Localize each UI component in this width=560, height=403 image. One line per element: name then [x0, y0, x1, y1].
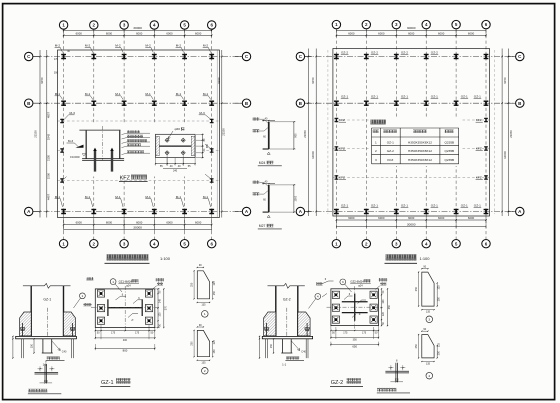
- svg-text:KFZ: KFZ: [476, 118, 482, 122]
- GZ-2 column elevation: break line: [268, 283, 305, 288]
- svg-text:125: 125: [213, 340, 216, 345]
- svg-text:9150: 9150: [311, 77, 315, 84]
- svg-text:2: 2: [375, 149, 377, 153]
- wind column row line: [333, 177, 490, 179]
- axis circle A: [516, 207, 524, 215]
- svg-text:KFZ: KFZ: [339, 118, 345, 122]
- svg-text:300: 300: [54, 72, 59, 75]
- column mark A-6 with M-1 label: [209, 209, 214, 214]
- svg-text:KFZ: KFZ: [476, 147, 482, 151]
- GZ-2 plan right dims: [381, 289, 383, 326]
- svg-text:6000: 6000: [348, 216, 355, 220]
- KFZ base plate: [82, 158, 124, 160]
- grid line axis 4 (right plan): [425, 29, 427, 239]
- axis circle 6: [482, 240, 490, 248]
- M24 anchor bolt detail: [268, 122, 270, 149]
- axis stub lines: [33, 211, 40, 213]
- column mark C3 GZ-2: [394, 54, 399, 59]
- column mark A-1 with M-1 label: [61, 209, 66, 214]
- axis circle C: [25, 52, 33, 60]
- grid line axis 3 (left plan): [123, 29, 125, 239]
- svg-text:30000: 30000: [133, 226, 142, 230]
- axis circle 6: [482, 20, 490, 28]
- axis circle C: [516, 52, 524, 60]
- KFZ anchor bolt right: [111, 151, 113, 172]
- GZ-1 anchor bolt plan: outer plate: [95, 289, 155, 328]
- left dimension chain (right plan): [307, 49, 309, 217]
- svg-text:KFZ: KFZ: [387, 158, 393, 162]
- right-top leader: [379, 278, 387, 281]
- callout circle 3: [340, 279, 346, 285]
- svg-text:M-1: M-1: [115, 195, 121, 199]
- svg-text:125: 125: [437, 285, 440, 290]
- GZ-2 gusset left: [264, 312, 276, 336]
- wind column mark axis1 KFZ: [335, 118, 339, 122]
- M27 anchor bolt detail: [268, 185, 270, 212]
- svg-text:M-3: M-3: [70, 111, 76, 115]
- svg-text:KFZ: KFZ: [339, 176, 345, 180]
- axis circle A: [25, 207, 33, 215]
- bottom dimension chain (right plan): [336, 219, 486, 221]
- svg-text:135: 135: [426, 311, 431, 314]
- svg-text:M-1: M-1: [145, 92, 151, 96]
- GZ-2 gusset right: [298, 312, 310, 336]
- column mark B-4 with M-1 label: [152, 101, 157, 106]
- grid line axis 4 (left plan): [153, 29, 155, 239]
- svg-text:9150: 9150: [40, 77, 44, 84]
- svg-text:175: 175: [362, 331, 367, 334]
- right dimension chain (right plan): [501, 49, 503, 217]
- svg-text:M-3: M-3: [199, 111, 205, 115]
- svg-text:M-2: M-2: [176, 44, 182, 48]
- axis circle 5: [452, 240, 460, 248]
- svg-text:M-1: M-1: [176, 195, 182, 199]
- svg-text:12000: 12000: [311, 151, 315, 159]
- GZ-2 column web centerline: [286, 308, 288, 337]
- axis circle 1: [59, 21, 67, 29]
- svg-text:250: 250: [415, 344, 418, 349]
- wind column mark axis6 KFZ: [484, 146, 488, 150]
- axis circle B: [25, 99, 33, 107]
- axis circle 5: [452, 20, 460, 28]
- GZ-1 grout stub: [42, 339, 44, 353]
- wind column mark axis1 KFZ: [335, 175, 339, 179]
- weld symbols: [116, 296, 127, 300]
- wind column mark axis6 with M-3 label: [210, 119, 214, 123]
- axis circle 6: [208, 21, 216, 29]
- svg-text:GZ1-6M24: GZ1-6M24: [119, 279, 133, 283]
- svg-text:GZ-2: GZ-2: [371, 50, 378, 54]
- intermediate column row line: [58, 120, 220, 122]
- svg-text:135: 135: [201, 303, 206, 306]
- svg-text:150: 150: [213, 349, 216, 354]
- callout circle 1: [110, 279, 116, 285]
- column mark B3 GZ-1: [394, 101, 399, 106]
- svg-text:6000: 6000: [348, 31, 355, 35]
- top dimension chain (left plan): [64, 29, 212, 31]
- svg-text:1-1: 1-1: [282, 362, 286, 366]
- GZ-2 anchor bolts with washers: [264, 328, 268, 330]
- wind column mark axis1 KFZ: [335, 146, 339, 150]
- column mark A2 GZ-1: [364, 209, 369, 214]
- grid line axis C (right plan): [305, 56, 515, 58]
- GZ-1 stub dim 150: [33, 339, 35, 353]
- svg-text:GZ-1: GZ-1: [474, 95, 481, 99]
- column mark A-3 with M-1 label: [122, 209, 127, 214]
- wind column mark axis6 KFZ: [484, 118, 488, 122]
- svg-text:GZ-1: GZ-1: [387, 140, 394, 144]
- svg-text:GZ-1: GZ-1: [43, 298, 51, 302]
- stiffener callout circle 4 near elevation: [315, 294, 321, 300]
- title: anchor bolt plan layout (left): [107, 254, 149, 260]
- svg-text:GZ-2: GZ-2: [387, 149, 394, 153]
- grid line axis B (right plan): [305, 102, 515, 104]
- column mark B2 GZ-1: [364, 101, 369, 106]
- column mark C5 GZ-2: [454, 54, 459, 59]
- white mask under KFZ detail: [64, 125, 205, 177]
- axis circle 3: [392, 240, 400, 248]
- svg-text:1: 1: [204, 312, 206, 316]
- column mark C-5 with M-2 label: [182, 54, 187, 59]
- svg-text:12000: 12000: [503, 151, 507, 159]
- wind column row line: [333, 119, 490, 121]
- svg-text:M-2: M-2: [85, 44, 91, 48]
- column mark C1 GZ-2: [334, 54, 339, 59]
- bolts (4): [165, 138, 169, 142]
- weld symbols inside: [344, 296, 353, 300]
- weld flag: [76, 145, 84, 148]
- svg-text:4: 4: [317, 295, 319, 299]
- svg-text:M-2: M-2: [203, 44, 209, 48]
- bolt boxes: [97, 290, 104, 297]
- intermediate column row line: [58, 150, 220, 152]
- cross detail label: [28, 389, 47, 393]
- wind column mark axis6 with M-3 label: [210, 148, 214, 152]
- svg-text:250: 250: [191, 341, 194, 346]
- GZ-2 base plate: [262, 336, 312, 338]
- axis circle 5: [180, 21, 188, 29]
- svg-text:GZ-2: GZ-2: [341, 50, 348, 54]
- GZ-1 base plate: [16, 336, 77, 338]
- svg-text:6000: 6000: [438, 216, 445, 220]
- svg-text:GZ-2: GZ-2: [431, 50, 438, 54]
- svg-text:GZ-1: GZ-1: [461, 95, 468, 99]
- axis stub lines: [33, 102, 40, 104]
- svg-text:1000: 1000: [295, 195, 298, 201]
- svg-text:6000: 6000: [438, 31, 445, 35]
- svg-text:3150: 3150: [47, 154, 51, 161]
- svg-text:21150: 21150: [34, 130, 38, 138]
- intermediate column row line: [58, 180, 220, 182]
- svg-text:GZ-1: GZ-1: [341, 203, 348, 207]
- GZ-1 gusset left: [20, 312, 32, 336]
- svg-text:H350X350X8X12: H350X350X8X12: [408, 140, 432, 144]
- wind column mark axis6 KFZ: [484, 175, 488, 179]
- svg-text:6000: 6000: [408, 31, 415, 35]
- svg-text:6000: 6000: [106, 221, 113, 225]
- GZ-2 plan bottom dims: [331, 330, 379, 332]
- grid line axis A (left plan): [33, 211, 242, 213]
- svg-text:250: 250: [191, 282, 194, 287]
- svg-text:M-1: M-1: [55, 92, 61, 96]
- svg-text:GZ-1: GZ-1: [101, 380, 114, 386]
- cross detail label: [377, 388, 396, 392]
- svg-text:1:100: 1:100: [160, 256, 171, 261]
- right dimension chain (left plan): [221, 50, 223, 218]
- column mark A6 GZ-1: [484, 209, 489, 214]
- svg-text:150: 150: [270, 343, 273, 348]
- bolt boxes: [332, 291, 339, 298]
- wind column mark axis6 with M-3 label: [210, 178, 214, 182]
- svg-text:M-1: M-1: [85, 195, 91, 199]
- svg-text:M-1: M-1: [145, 195, 151, 199]
- svg-text:125: 125: [213, 281, 216, 286]
- column mark B4 GZ-1: [424, 101, 429, 106]
- svg-text:GZ-1: GZ-1: [371, 95, 378, 99]
- svg-text:M-1: M-1: [85, 92, 91, 96]
- column mark B1 GZ-1: [334, 101, 339, 106]
- svg-text:M-1: M-1: [55, 195, 61, 199]
- column mark A3 GZ-1: [394, 209, 399, 214]
- axis circle 6: [208, 240, 216, 248]
- axis circle 1: [332, 240, 340, 248]
- svg-text:30000: 30000: [407, 26, 416, 30]
- column mark C-6 with M-2 label: [209, 54, 214, 59]
- svg-text:±0.000: ±0.000: [70, 155, 80, 159]
- svg-text:H350X350X8X12: H350X350X8X12: [408, 149, 432, 153]
- grid line axis 2 (left plan): [93, 29, 95, 239]
- svg-text:M-1: M-1: [115, 92, 121, 96]
- svg-text:6000: 6000: [166, 221, 173, 225]
- GZ-1 plan bottom dims: [95, 330, 155, 332]
- GZ-2 grout leader: [291, 341, 299, 351]
- svg-text:9150: 9150: [217, 77, 221, 84]
- grid line axis 5 (left plan): [184, 29, 186, 239]
- axis circle A: [296, 207, 304, 215]
- svg-text:M24: M24: [259, 161, 266, 165]
- stiffener detail 3: [422, 272, 434, 306]
- axis circle 4: [422, 240, 430, 248]
- svg-text:GZ2-6M24: GZ2-6M24: [350, 279, 364, 283]
- svg-text:650: 650: [352, 345, 357, 349]
- axis circle B: [296, 99, 304, 107]
- column H-section: [107, 299, 109, 316]
- svg-text:150: 150: [213, 291, 216, 296]
- cross stiffener detail: [44, 364, 46, 383]
- svg-text:M-2: M-2: [115, 44, 121, 48]
- svg-text:6000: 6000: [76, 31, 83, 35]
- axis circle 4: [422, 20, 430, 28]
- axis circle C: [296, 52, 304, 60]
- svg-text:6000: 6000: [76, 221, 83, 225]
- svg-text:M27: M27: [259, 224, 266, 228]
- GZ-2 left dim line: [259, 336, 261, 358]
- axis stub lines: [33, 56, 40, 58]
- svg-text:1: 1: [82, 294, 84, 298]
- svg-text:1:100: 1:100: [420, 256, 431, 261]
- svg-text:100: 100: [395, 379, 400, 382]
- building outline (left plan): [58, 50, 220, 218]
- svg-text:21150: 21150: [221, 128, 225, 136]
- svg-text:GZ-1: GZ-1: [371, 203, 378, 207]
- svg-text:Q235B: Q235B: [444, 149, 454, 153]
- svg-text:Q235B: Q235B: [444, 140, 454, 144]
- svg-text:GZ-1: GZ-1: [431, 203, 438, 207]
- svg-text:6000: 6000: [378, 216, 385, 220]
- left dimension chain (left plan): [39, 50, 41, 218]
- svg-text:KFZ: KFZ: [339, 147, 345, 151]
- GZ-1 grout leader: [52, 341, 60, 351]
- axis circle 2: [90, 21, 98, 29]
- column mark A4 GZ-1: [424, 209, 429, 214]
- GZ-2 column flanges: [275, 286, 277, 337]
- building outline (right plan): [333, 49, 490, 217]
- axis circle 3: [120, 21, 128, 29]
- svg-text:GZ-1: GZ-1: [461, 203, 468, 207]
- grid line axis A (right plan): [305, 211, 515, 213]
- GZ-1 column flanges: [30, 286, 32, 337]
- svg-text:350: 350: [388, 305, 391, 310]
- bottom dimension chain (left plan): [64, 224, 212, 226]
- axis circle 1: [332, 20, 340, 28]
- stiffener detail 1: [197, 271, 209, 299]
- axis circle B: [242, 99, 250, 107]
- wind column mark axis1 with M-3 label: [60, 148, 64, 152]
- svg-text:135: 135: [426, 363, 431, 366]
- svg-text:Q235B: Q235B: [444, 158, 454, 162]
- svg-text:120: 120: [382, 311, 385, 316]
- cross stiffener detail: [395, 363, 397, 382]
- svg-text:M-1: M-1: [176, 92, 182, 96]
- svg-text:6000: 6000: [468, 31, 475, 35]
- GZ-1 anchor bolts with washers: [20, 328, 24, 330]
- KFZ anchor-bolt plan: outer rect: [156, 134, 196, 157]
- column H-section (rotated): [342, 301, 368, 303]
- top dimension chain (right plan): [336, 29, 486, 31]
- svg-text:6000: 6000: [106, 31, 113, 35]
- svg-text:KFZ: KFZ: [120, 175, 131, 181]
- grid line axis C (left plan): [33, 56, 242, 58]
- svg-text:M-2: M-2: [55, 44, 61, 48]
- level mark ±0.000: [82, 154, 85, 157]
- column mark B6 GZ-1: [484, 101, 489, 106]
- centerline: [354, 286, 356, 328]
- axis circle 4: [150, 21, 158, 29]
- svg-text:6000: 6000: [136, 31, 143, 35]
- svg-text:C40: C40: [62, 350, 67, 353]
- column mark B5 GZ-1: [454, 101, 459, 106]
- svg-text:3: 3: [428, 318, 430, 322]
- svg-text:φ24: φ24: [126, 285, 131, 288]
- svg-text:125: 125: [437, 342, 440, 347]
- right dim chain of KFZ plan: [201, 134, 203, 157]
- wind column mark axis1 with M-3 label: [60, 119, 64, 123]
- GZ-1 gusset right: [64, 312, 76, 336]
- svg-text:φ60: φ60: [175, 127, 181, 131]
- GZ-2 stub dim 150: [273, 339, 275, 353]
- svg-text:GZ-2: GZ-2: [331, 380, 344, 386]
- column mark B-2 with M-1 label: [91, 101, 96, 106]
- svg-text:150: 150: [437, 297, 440, 302]
- svg-text:30000: 30000: [407, 222, 416, 226]
- axis circle C: [242, 52, 250, 60]
- svg-text:175: 175: [343, 331, 348, 334]
- column mark C6 GZ-2: [484, 54, 489, 59]
- web line: [159, 145, 191, 147]
- svg-text:1943: 1943: [47, 133, 51, 140]
- column mark C-4 with M-2 label: [152, 54, 157, 59]
- wind column mark axis1 with M-3 label: [60, 178, 64, 182]
- grid line axis 1 (right plan): [335, 29, 337, 239]
- svg-text:350: 350: [353, 339, 358, 342]
- svg-text:145: 145: [159, 298, 162, 303]
- bolt extension lines: [166, 155, 168, 166]
- svg-text:GZ-1: GZ-1: [401, 95, 408, 99]
- column mark B-6 with M-1 label: [209, 101, 214, 106]
- axis circle A: [242, 207, 250, 215]
- svg-text:6000: 6000: [136, 221, 143, 225]
- svg-text:135: 135: [201, 361, 206, 364]
- axis circle 2: [362, 240, 370, 248]
- axis stub lines: [305, 56, 312, 58]
- column mark A-4 with M-1 label: [152, 209, 157, 214]
- svg-text:21150: 21150: [303, 130, 307, 138]
- svg-text:4957: 4957: [47, 111, 51, 118]
- column mark C-2 with M-2 label: [91, 54, 96, 59]
- centerlines: [124, 286, 126, 330]
- svg-text:30000: 30000: [133, 26, 142, 30]
- svg-text:900: 900: [295, 133, 298, 138]
- axis circle B: [516, 99, 524, 107]
- wind column row line: [333, 148, 490, 150]
- column mark B-1 with M-1 label: [61, 101, 66, 106]
- column mark A-2 with M-1 label: [91, 209, 96, 214]
- grid line axis 6 (left plan): [211, 29, 213, 239]
- column mark C-1 with M-2 label: [61, 54, 66, 59]
- svg-text:6000: 6000: [195, 31, 202, 35]
- grid line axis 6 (right plan): [485, 29, 487, 239]
- svg-text:KFZ: KFZ: [476, 176, 482, 180]
- svg-text:M-2: M-2: [145, 44, 151, 48]
- right-top leader: [156, 278, 164, 281]
- column mark B-3 with M-1 label: [122, 101, 127, 106]
- KFZ anchor bolt left: [94, 151, 96, 172]
- axis circle 3: [120, 240, 128, 248]
- column mark B-5 with M-1 label: [182, 101, 187, 106]
- stiffener detail 2: [197, 330, 209, 356]
- svg-text:H350X350X8X12: H350X350X8X12: [408, 158, 432, 162]
- svg-text:GZ-1: GZ-1: [341, 95, 348, 99]
- svg-text:170: 170: [54, 58, 59, 61]
- svg-text:4407: 4407: [47, 193, 51, 200]
- svg-text:21150: 21150: [509, 130, 513, 138]
- svg-text:M-3: M-3: [68, 139, 74, 143]
- svg-text:9150: 9150: [503, 77, 507, 84]
- column mark C2 GZ-2: [364, 54, 369, 59]
- KFZ column centerline: [101, 126, 103, 160]
- axis circle 5: [180, 240, 188, 248]
- GZ-1 column web centerline: [46, 308, 48, 337]
- axis circle 2: [362, 20, 370, 28]
- GZ-1 plan right dims: [157, 289, 159, 328]
- grid line axis 5 (right plan): [455, 29, 457, 239]
- axis stub lines: [305, 211, 312, 213]
- svg-text:GZ-2: GZ-2: [283, 298, 291, 302]
- KFZ column elevation: cap line: [79, 129, 120, 131]
- GZ-1 base label: [47, 356, 60, 359]
- grid line axis 3 (right plan): [395, 29, 397, 239]
- GZ-2 anchor bolt plan: outer plate: [331, 289, 379, 326]
